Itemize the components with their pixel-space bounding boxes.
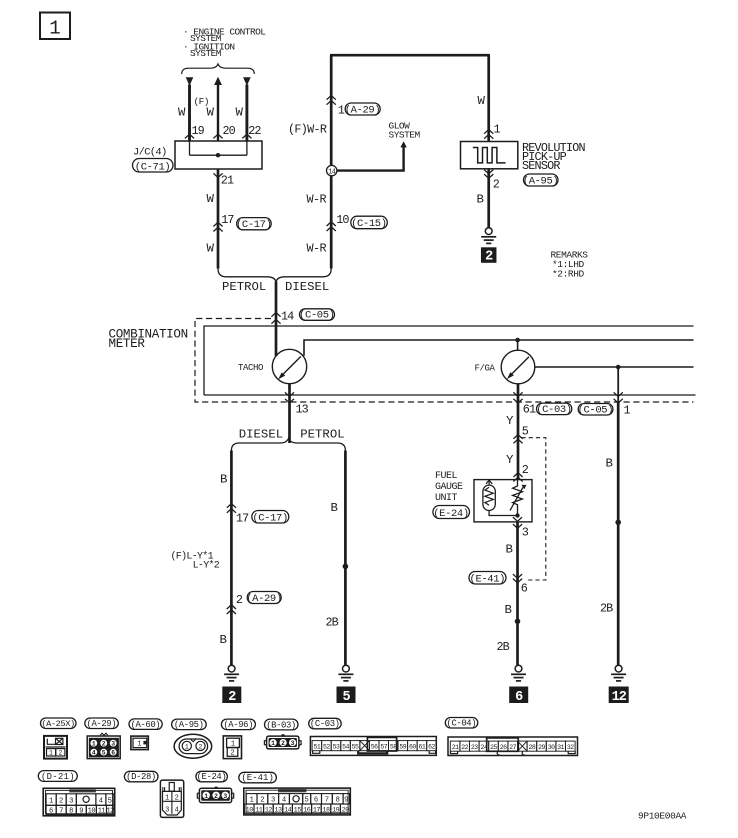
svg-text:2B: 2B [600,602,613,616]
svg-text:18: 18 [322,806,330,814]
svg-text:1: 1 [204,793,208,800]
svg-text:(C-03): (C-03) [536,404,572,416]
tacho gauge G1 [272,349,306,383]
connector label A-29 icon [85,718,119,729]
ground symbol fuel branch [515,665,522,672]
svg-text:2: 2 [102,741,106,748]
svg-text:10: 10 [88,808,96,816]
junction connector J/C(4) box [175,141,262,169]
svg-text:2: 2 [59,797,63,805]
svg-text:16: 16 [303,806,311,814]
connector label A-95 icon [172,719,207,730]
svg-text:(A-29): (A-29) [345,104,381,116]
svg-text:W: W [207,106,215,120]
wire J/C pin21 down to C-17 [217,169,220,269]
svg-text:2: 2 [485,250,493,265]
svg-text:(D-21): (D-21) [41,772,75,782]
C-03 highlight frame pins 56-58 [367,737,396,751]
svg-text:W-R: W-R [307,192,327,206]
svg-text:21: 21 [452,744,459,751]
svg-text:(C-05): (C-05) [299,310,335,322]
svg-text:W: W [478,94,486,108]
C-04 hook marks [497,751,500,755]
svg-text:B: B [331,501,338,515]
meter pin arrows 61 [513,392,522,396]
inline connector arrows pin 2 [513,473,522,477]
svg-text:B: B [606,457,613,471]
brace diesel/petrol split [231,438,345,450]
svg-text:61: 61 [523,403,536,417]
fuel gauge unit E-24 box [474,480,532,522]
wire pin22 to J/C(4) with system arrow [243,77,251,86]
svg-text:2: 2 [228,690,236,705]
inline connector arrows E-41 [513,574,522,578]
connector label C-17 [237,218,272,230]
inline connector arrows C-17 [213,222,222,226]
connector icon C-04 strip [448,737,578,756]
ground symbol diesel branch [228,665,235,672]
svg-text:10: 10 [246,806,254,814]
svg-text:(C-15): (C-15) [351,218,387,230]
svg-text:(A-29): (A-29) [246,593,282,605]
svg-text:6: 6 [521,581,528,595]
connector label B-03 [265,719,299,730]
svg-text:5: 5 [108,797,112,805]
svg-text:25: 25 [490,744,497,751]
svg-text:GAUGE: GAUGE [435,482,463,493]
svg-text:32: 32 [567,744,574,751]
connector label A-60 [129,719,162,730]
svg-text:2: 2 [58,750,62,757]
junction dot feed f/ga [515,338,520,343]
svg-text:23: 23 [471,744,478,751]
svg-text:UNIT: UNIT [435,493,458,504]
connector label C-04 [445,718,478,729]
svg-text:3: 3 [69,797,73,805]
svg-text:14: 14 [284,806,292,814]
connector icon A-29 [100,733,108,735]
meter pin arrows 13 [285,392,294,396]
svg-text:10: 10 [336,213,349,227]
svg-text:22: 22 [248,124,261,138]
junction dot fuel branch [515,619,521,625]
connector icon E-24 [214,787,218,789]
svg-text:52: 52 [323,743,330,750]
variable resistor zigzag [513,480,523,516]
svg-text:W: W [178,106,186,120]
diesel wire up to top junction [330,55,333,269]
ground reference box 12 [609,687,629,704]
svg-text:5: 5 [522,424,529,438]
svg-text:B: B [506,543,513,557]
junction node 14 circle [327,165,337,175]
svg-text:*2:RHD: *2:RHD [552,269,585,280]
svg-text:9: 9 [79,808,83,816]
connector icon A-95 [174,734,212,758]
svg-text:19: 19 [332,806,340,814]
svg-text:B: B [220,472,227,486]
svg-text:(E-24): (E-24) [197,772,227,782]
svg-text:4: 4 [282,797,286,805]
connector arrows sensor pin1 [484,130,493,134]
page frame box 1 [40,13,70,40]
revolution pick-up sensor U1 box [461,142,518,169]
svg-text:59: 59 [399,743,406,750]
svg-text:(C-71): (C-71) [135,161,171,173]
pin arrow 21 [213,173,222,177]
svg-text:5: 5 [305,797,309,805]
svg-text:DIESEL: DIESEL [285,280,329,294]
connector label C-71 [133,159,174,173]
connector label E-41 icon [239,772,277,783]
svg-text:22: 22 [461,744,468,751]
wire from petrol/diesel into meter pin 14 [275,282,278,357]
meter pin arrows right 1 [614,392,623,396]
svg-text:9: 9 [344,797,348,805]
svg-text:J/C(4): J/C(4) [133,147,167,159]
svg-text:B: B [505,603,512,617]
fuel sender wire from pin 61 down [517,402,520,480]
inline connector arrows pin 5 [513,435,522,439]
inline connector arrows C-15 [327,222,336,226]
svg-text:4: 4 [99,797,103,805]
sensor pulse waveform symbol [473,148,506,163]
wire to glow system [337,147,404,171]
svg-text:W: W [207,192,215,206]
svg-text:1: 1 [185,743,189,750]
svg-text:62: 62 [428,743,435,750]
connector label A-25X [41,718,77,729]
svg-text:29: 29 [538,744,545,751]
connector label C-17 lower [252,511,289,524]
svg-text:B: B [220,633,227,647]
svg-text:Y: Y [506,453,514,467]
svg-text:17: 17 [313,806,321,814]
connector label D-21 [38,771,77,782]
svg-text:(B-03): (B-03) [266,720,296,730]
inline connector arrows A-29 diesel [327,96,336,100]
svg-text:53: 53 [333,743,340,750]
svg-text:6: 6 [314,797,318,805]
svg-text:1: 1 [165,795,169,803]
connector label A-96 [221,719,255,730]
svg-text:F/GA: F/GA [475,363,496,373]
svg-text:55: 55 [352,743,359,750]
connector label E-24 [433,506,470,519]
connector icon A-25X [44,736,67,759]
svg-text:(C-17): (C-17) [236,219,272,231]
svg-text:(E-24): (E-24) [433,508,469,520]
svg-text:TACHO: TACHO [238,363,263,373]
svg-text:DIESEL: DIESEL [239,428,283,442]
capsule arrow to case [488,481,490,485]
f/ga right bus wire [535,366,694,368]
svg-text:17: 17 [221,213,234,227]
svg-text:20: 20 [223,124,236,138]
svg-text:2: 2 [493,178,500,192]
connector icon C-03 strip [310,737,436,756]
svg-text:(C-17): (C-17) [252,512,288,524]
svg-text:(C-03): (C-03) [310,719,340,729]
svg-text:(F)W-R: (F)W-R [288,123,327,137]
svg-text:21: 21 [221,174,234,188]
sender internal link [489,511,517,516]
svg-text:(A-29): (A-29) [87,719,117,729]
svg-text:1: 1 [92,741,96,748]
svg-text:3: 3 [165,807,169,815]
svg-text:4: 4 [175,807,179,815]
connector label C-03 [537,403,572,415]
svg-text:2: 2 [236,593,243,607]
connector label A-29 [345,103,380,115]
wire fuel gauge unit pin 3 down [516,522,519,665]
svg-text:2: 2 [199,743,203,750]
ground symbol right branch [615,665,622,672]
svg-text:3: 3 [522,526,529,540]
svg-text:(D-28): (D-28) [126,772,156,782]
svg-text:B: B [477,193,484,207]
C-04 highlight frame pins 25-27 [487,738,519,751]
svg-text:2B: 2B [326,616,339,630]
right branch wire to ground 12 [617,402,620,665]
svg-text:W: W [207,241,215,255]
svg-text:(E-41): (E-41) [470,573,506,585]
connector label C-05 right [578,404,613,416]
svg-text:1: 1 [624,404,631,418]
svg-text:(A-95): (A-95) [174,720,204,730]
svg-text:3: 3 [223,793,227,800]
connector icon B-03 [281,734,286,736]
svg-text:7: 7 [325,797,329,805]
ground symbol sensor [485,228,492,235]
svg-text:8: 8 [69,808,73,816]
wire pin20 to J/C(4) with arrow up [214,77,222,85]
svg-text:L-Y*2: L-Y*2 [193,560,220,572]
connector arrows pin 3 [513,517,522,521]
connector icon E-41 [244,788,350,815]
svg-text:6: 6 [111,750,115,757]
variable resistor arrow [510,487,523,510]
svg-text:(A-95): (A-95) [523,175,559,187]
connector arrows sensor pin2 [484,170,493,174]
svg-text:(A-25X): (A-25X) [41,719,74,729]
svg-text:(A-96): (A-96) [223,720,253,730]
combination meter dashed housing [195,319,694,403]
svg-text:12: 12 [612,690,627,705]
connector icon D-21 [43,788,115,816]
connector label E-24 icon [196,771,228,782]
svg-text:54: 54 [342,743,349,750]
svg-text:5: 5 [342,690,350,705]
svg-text:51: 51 [313,743,320,750]
dashed option path [522,438,546,580]
junction dot petrol branch [343,564,349,570]
svg-text:1: 1 [49,797,53,805]
svg-text:Y: Y [506,414,514,428]
svg-text:56: 56 [371,743,378,750]
sender coil capsule [483,485,495,510]
ground reference box 2 lower [222,687,241,704]
wire down to f/ga gauge [517,340,519,351]
svg-text:2: 2 [522,463,529,477]
svg-text:PETROL: PETROL [222,280,266,294]
svg-text:1: 1 [494,123,501,137]
diesel branch wire to ground 2 [230,451,233,666]
svg-text:1: 1 [271,740,275,747]
svg-text:27: 27 [509,744,516,751]
connector icon A-60 [131,736,148,750]
svg-text:26: 26 [500,744,507,751]
connector label C-05 [300,309,335,321]
connector label D-28 [124,771,158,782]
svg-text:6: 6 [515,690,523,705]
wire f/ga pin 61 [517,384,520,402]
ground reference box 2 [481,247,497,262]
svg-text:19: 19 [192,124,205,138]
meter pin arrows 14 [271,313,280,317]
svg-text:SYSTEM: SYSTEM [190,48,222,59]
svg-text:SYSTEM: SYSTEM [389,129,421,140]
svg-text:12: 12 [106,808,114,816]
svg-text:(C-04): (C-04) [447,718,477,728]
junction dot right branch lower [615,520,621,526]
svg-text:(C-05): (C-05) [578,404,614,416]
inline connector arrows C-17 lower [227,504,236,508]
J/C internal bus [190,154,247,156]
svg-text:PETROL: PETROL [300,428,344,442]
svg-text:13: 13 [296,403,309,417]
svg-text:15: 15 [294,806,302,814]
wire tacho to f/ga bus [304,340,694,356]
svg-text:2: 2 [260,797,264,805]
svg-text:14: 14 [328,168,335,176]
svg-text:(E-41): (E-41) [241,773,274,783]
connector label C-15 [351,216,388,229]
svg-text:8: 8 [336,797,340,805]
svg-text:5: 5 [102,750,106,757]
top bus wire [330,54,490,57]
svg-text:FUEL: FUEL [435,471,458,482]
svg-text:(A-60): (A-60) [131,720,161,730]
svg-text:7: 7 [59,808,63,816]
svg-text:SENSOR: SENSOR [522,159,560,173]
wire pin19 to J/C(4) with system arrow [186,77,194,86]
svg-text:6: 6 [49,808,53,816]
svg-text:28: 28 [528,744,535,751]
svg-text:METER: METER [109,337,146,351]
sensor ground wire [487,169,490,228]
ground symbol petrol branch [343,665,350,672]
svg-text:31: 31 [557,744,564,751]
svg-text:61: 61 [419,743,426,750]
svg-text:2: 2 [230,750,234,758]
svg-text:11: 11 [98,808,106,816]
wire tacho pin 13 [288,384,291,444]
svg-text:1: 1 [137,741,141,749]
svg-text:13: 13 [274,806,282,814]
brace petrol/diesel merge [218,269,331,282]
svg-text:2B: 2B [497,640,510,654]
svg-text:2: 2 [214,793,218,800]
connector label A-29 lower [247,592,281,604]
svg-text:12: 12 [265,806,273,814]
junction dot right branch [616,365,621,370]
svg-text:W-R: W-R [307,242,327,256]
svg-text:3: 3 [111,741,115,748]
connector arrows at J/C pins [185,134,194,138]
inline connector arrows A-29 lower [227,605,236,609]
right branch wire inside meter [617,367,619,402]
svg-text:4: 4 [92,750,96,757]
svg-text:3: 3 [291,740,295,747]
svg-text:1: 1 [49,750,53,757]
svg-text:60: 60 [409,743,416,750]
junction dot sender [515,513,519,517]
svg-text:W: W [236,106,244,120]
svg-text:9P10E00AA: 9P10E00AA [638,810,687,821]
connector icon A-96 [223,736,241,759]
connector label C-03 [309,718,342,729]
svg-text:1: 1 [49,18,60,40]
svg-text:2: 2 [175,795,179,803]
svg-text:2: 2 [281,740,285,747]
connector label E-41 [469,572,506,585]
svg-text:57: 57 [380,743,387,750]
brace over wires 19/20/22 [182,64,255,74]
connector icon D-28 [160,780,183,817]
svg-text:3: 3 [271,797,275,805]
wire down to revolution sensor [487,55,490,142]
svg-text:30: 30 [548,744,555,751]
petrol branch wire to ground 5 [344,451,347,666]
svg-text:14: 14 [281,310,294,324]
meter inner solid box [204,326,694,395]
ground reference box 5 [337,687,356,704]
J/C internal junction dot [216,153,220,157]
ground reference box 6 [509,687,528,704]
fuel gauge G2 f/ga [501,350,535,384]
svg-text:17: 17 [236,512,249,526]
svg-text:20: 20 [342,806,350,814]
svg-text:1: 1 [249,797,253,805]
connector label A-95 [524,174,559,186]
svg-text:11: 11 [255,806,263,814]
